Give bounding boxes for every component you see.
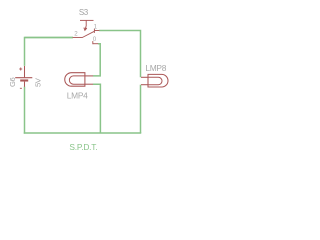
lamp LMP8 pin 2 lead [141, 84, 148, 86]
svg-text:1: 1 [94, 23, 98, 30]
lamp LMP4 filament [69, 76, 85, 84]
wire switch pin 0 to lamp LMP4 top pin [93, 44, 100, 76]
wire battery plus to switch pin 2 (top-left horizontal) [25, 37, 73, 65]
lamp LMP8 envelope [148, 74, 168, 87]
lamp LMP8 filament [148, 77, 162, 84]
wire bottom rail [24, 132, 142, 134]
switch S3 contact tick pin 1 [93, 29, 95, 33]
svg-text:LMP8: LMP8 [145, 63, 166, 73]
svg-text:S3: S3 [79, 8, 89, 17]
wire stub switch pin 2 [25, 36, 73, 38]
switch S3 contact tick pin 0 [92, 41, 94, 44]
switch S3 pin 2 lead [73, 36, 83, 38]
battery G6 positive pin lead [24, 66, 26, 77]
switch S3 actuator T-bar [80, 20, 94, 26]
switch S3 pin 1 lead [94, 30, 99, 32]
wire lamp LMP4 bottom pin down to bottom rail [93, 84, 101, 133]
switch S3 lever [82, 31, 94, 37]
svg-text:0: 0 [93, 36, 97, 43]
battery G6 plus sign [19, 68, 22, 71]
lamp LMP8 pin 1 lead [141, 76, 148, 78]
switch S3 actuator arrow [84, 26, 87, 30]
battery G6 short plate [20, 79, 28, 81]
svg-text:G6: G6 [8, 77, 17, 87]
svg-text:LMP4: LMP4 [67, 90, 88, 100]
wire battery minus down to bottom rail [24, 87, 26, 134]
battery G6 long plate [15, 77, 32, 79]
battery G6 negative pin lead [24, 82, 26, 87]
wire lamp LMP8 bottom pin down to bottom rail [140, 85, 142, 133]
switch S3 pin 0 lead [93, 43, 98, 45]
svg-text:5V: 5V [34, 77, 43, 87]
svg-text:2: 2 [74, 30, 78, 37]
lamp LMP4 envelope [65, 73, 85, 87]
svg-text:S.P.D.T.: S.P.D.T. [69, 142, 97, 152]
lamp LMP4 pin 1 lead [85, 75, 93, 77]
battery G6 minus sign [20, 87, 22, 89]
lamp LMP4 pin 2 lead [85, 83, 93, 85]
wire switch pin 1 to lamp LMP8 top pin [99, 31, 140, 78]
